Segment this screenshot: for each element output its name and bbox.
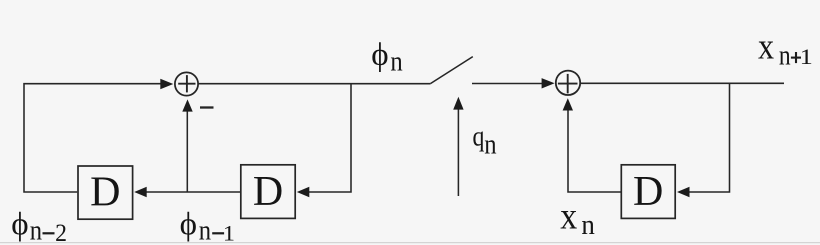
arrowhead into C1 bottom (minus input) <box>182 99 192 111</box>
svg-text:D: D <box>90 170 120 216</box>
wire junction up to summer C1 minus input <box>186 111 188 192</box>
plus sign in C2 <box>558 74 578 94</box>
wire switch output to summer C2 <box>472 83 543 85</box>
summing junction C2 <box>556 71 580 95</box>
wire q_n input arrow shaft <box>457 109 459 196</box>
wire summer C2 output to x_n+1 <box>580 82 785 84</box>
label phi_n <box>371 37 388 73</box>
faint horizontal rule at bottom of figure <box>0 242 820 244</box>
arrowhead into C1 left <box>160 79 173 89</box>
wire node phi_n down to D2 input <box>309 84 351 192</box>
svg-text:D: D <box>633 169 663 215</box>
svg-text:n: n <box>779 40 791 71</box>
wire junction x_n+1 down to D3 input <box>689 83 730 192</box>
label phi_n-2 <box>11 207 28 243</box>
arrowhead into C2 left <box>542 78 555 88</box>
svg-text:ϕ: ϕ <box>371 37 388 73</box>
svg-text:ϕ: ϕ <box>180 206 197 242</box>
delay block D1 <box>78 166 133 219</box>
delay block D3 <box>621 165 675 219</box>
svg-text:n: n <box>199 215 211 245</box>
svg-text:n: n <box>581 209 594 241</box>
svg-text:1: 1 <box>223 221 235 245</box>
svg-text:n: n <box>30 215 42 245</box>
svg-text:q: q <box>473 121 485 152</box>
arrowhead of q_n up arrow <box>453 97 463 110</box>
svg-text:x: x <box>560 194 577 236</box>
arrowhead into D3 right input <box>677 187 690 197</box>
svg-text:n: n <box>390 46 402 77</box>
wire D2 output to D1 input <box>146 191 241 193</box>
minus sign at C1 lower input <box>200 106 214 108</box>
svg-text:ϕ: ϕ <box>11 207 28 243</box>
label x_n <box>560 194 577 236</box>
svg-text:2: 2 <box>55 219 67 245</box>
summing junction C1 <box>175 72 198 95</box>
svg-text:1: 1 <box>800 45 813 69</box>
arrowhead into D2 right input <box>297 187 310 197</box>
wire D3 output up to summer C2 input <box>568 110 621 193</box>
svg-text:x: x <box>758 27 774 68</box>
plus sign in C1 <box>178 75 195 92</box>
svg-text:D: D <box>253 169 283 215</box>
wire summer C1 output to switch <box>199 83 431 85</box>
switch S1 diagonal arm <box>431 57 473 84</box>
wire feedback loop left: from D1 output left side, up and right to summer C1 input <box>24 84 161 192</box>
label q_n <box>473 121 485 152</box>
svg-text:n: n <box>484 129 496 160</box>
arrowhead into C2 bottom <box>563 98 573 110</box>
arrowhead into D1 right input <box>134 187 147 197</box>
delay block D2 <box>241 165 295 219</box>
label phi_n-1 <box>180 206 197 242</box>
label x_n+1 <box>758 27 774 68</box>
